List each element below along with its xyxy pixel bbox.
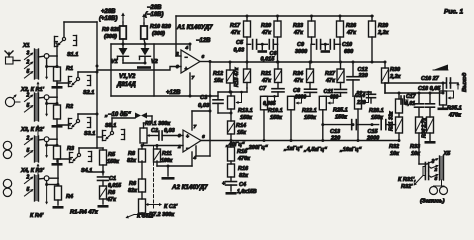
wire R33 to X5 [418, 133, 420, 164]
svg-text:Выход: Выход [462, 72, 468, 92]
wire bowtie to R7.1 [147, 115, 152, 117]
svg-text:47к: 47к [293, 78, 304, 84]
svg-text:4: 4 [193, 155, 197, 161]
capacitor C13 [323, 124, 351, 126]
wire from S5.1 up to bowtie [111, 118, 113, 131]
inverting input wire of A2 [142, 145, 183, 147]
capacitor C14 [370, 92, 372, 94]
ground under R3 [52, 163, 63, 166]
capacitor C1 [98, 176, 109, 178]
wiper of R7.1 to C2 [147, 135, 150, 137]
wire zener common [122, 60, 124, 63]
output wire of A1 [200, 61, 210, 63]
svg-text:„16кГц“: „16кГц“ [339, 147, 362, 153]
resistor R9 [122, 22, 124, 26]
svg-text:С10: С10 [342, 42, 352, 48]
svg-text:47к: 47к [325, 78, 336, 84]
wire to switch S2.1 [49, 96, 57, 98]
resistor R23 [311, 16, 313, 21]
wire to S5.2 with arrow [141, 213, 143, 215]
svg-text:S3.1: S3.1 [84, 131, 95, 137]
svg-text:R6: R6 [108, 190, 116, 196]
potentiometer R19.1 [261, 96, 268, 110]
top feedback bus [176, 15, 373, 17]
supply rail +12V [111, 95, 218, 97]
svg-text:С16 27: С16 27 [421, 76, 440, 82]
svg-text:150к: 150к [304, 115, 317, 121]
svg-text:R32′: R32′ [401, 184, 413, 190]
svg-text:680: 680 [344, 49, 353, 55]
pin 5 of X3 [25, 151, 33, 157]
svg-text:А2 К140УД7: А2 К140УД7 [171, 184, 208, 191]
svg-text:Х3, К R2′: Х3, К R2′ [20, 127, 45, 133]
svg-text:2,2к: 2,2к [389, 74, 402, 80]
svg-text:R25.1: R25.1 [333, 108, 348, 114]
wire to switch S3.1 [49, 138, 57, 140]
resistor R5 [100, 150, 107, 165]
resistor R6 [100, 186, 107, 199]
svg-text:47к: 47к [230, 30, 241, 36]
svg-text:S2.1: S2.1 [83, 90, 94, 96]
svg-text:0,03: 0,03 [164, 128, 175, 134]
svg-text:−28В: −28В [147, 5, 162, 11]
arrow output [457, 83, 459, 89]
wire column R26 R27 [339, 44, 341, 62]
svg-text:15к: 15к [237, 130, 247, 136]
ground between C5 C6 [261, 44, 263, 49]
svg-text:82к: 82к [127, 158, 137, 164]
svg-text:5: 5 [27, 69, 30, 75]
svg-text:R21: R21 [261, 71, 271, 77]
wire box left [110, 44, 112, 96]
wire node to pot R13.1 [246, 88, 248, 92]
svg-text:+: + [186, 134, 189, 140]
svg-text:S1.1: S1.1 [67, 52, 78, 58]
pin 4 stub of A2 [191, 152, 193, 166]
svg-text:К R4′: К R4′ [30, 213, 44, 219]
resistor R6b [139, 179, 146, 192]
switch S3.1 [68, 119, 70, 129]
svg-text:„−10 дБ“: „−10 дБ“ [104, 112, 131, 118]
svg-text:47к: 47к [293, 30, 304, 36]
op-amp A1 [181, 50, 200, 73]
svg-text:47к: 47к [346, 30, 357, 36]
svg-text:47к: 47к [261, 78, 272, 84]
svg-text:R5: R5 [108, 152, 116, 158]
capacitor C2 [150, 135, 159, 137]
svg-text:R29: R29 [378, 23, 389, 29]
attenuation bowtie symbol [135, 113, 141, 119]
resistor R20 [277, 16, 279, 21]
arrow to K R3p below [46, 145, 48, 156]
svg-text:0,005: 0,005 [263, 101, 276, 107]
svg-text:0,03: 0,03 [234, 48, 245, 54]
arrow -28V [143, 15, 145, 23]
terminal circle [44, 95, 49, 100]
svg-text:2,2к: 2,2к [377, 30, 390, 36]
svg-text:„1кГц“: „1кГц“ [283, 146, 303, 152]
wire C2 to A2 pin 3 [162, 135, 183, 137]
resistor R15 [230, 141, 232, 148]
svg-text:R11: R11 [162, 151, 172, 157]
svg-text:С1: С1 [109, 176, 116, 182]
pin 2 of X1 [25, 62, 33, 68]
switch S1.1 [54, 37, 56, 47]
selector bus wire [96, 22, 98, 148]
ground under R35.1 [438, 108, 449, 111]
wire circle junction [46, 142, 48, 146]
svg-text:82к: 82к [239, 173, 249, 179]
arrow to K R2p [37, 126, 39, 137]
wire S5.1 to R5 [97, 136, 103, 138]
wire circle junction [46, 100, 48, 104]
output bus of A2 [201, 140, 399, 142]
svg-text:−: − [185, 55, 188, 61]
svg-text:V1,V2: V1,V2 [119, 74, 136, 80]
svg-text:(Запись): (Запись) [420, 199, 445, 205]
capacitor C5 [247, 43, 251, 45]
pin 2 of X2 [25, 95, 33, 101]
resistor R18 [246, 62, 248, 69]
connector X2 [35, 93, 39, 121]
wire from S3.1 to selector bus [77, 114, 79, 119]
svg-text:R20: R20 [261, 23, 271, 29]
terminal circle [44, 176, 49, 181]
svg-text:150к: 150к [371, 115, 384, 121]
pickup symbol at X4 [3, 179, 11, 187]
svg-text:R30: R30 [390, 67, 400, 73]
ground under C4 [226, 192, 237, 195]
svg-text:R27: R27 [325, 71, 336, 77]
resistor R3 [54, 146, 61, 159]
svg-text:5: 5 [27, 103, 30, 109]
connector X4 [35, 175, 39, 201]
svg-text:С15: С15 [368, 129, 379, 135]
svg-text:R19.1: R19.1 [268, 108, 283, 114]
svg-text:7: 7 [194, 124, 197, 130]
svg-text:3: 3 [27, 51, 30, 57]
svg-text:+12В: +12В [166, 90, 181, 96]
wire node 16kHz [358, 91, 371, 93]
svg-text:10к: 10к [390, 151, 400, 157]
svg-text:R31 33к: R31 33к [389, 111, 395, 131]
wire common of X5 caps [423, 166, 425, 168]
capacitor C10 [325, 43, 328, 45]
svg-text:0,015: 0,015 [108, 183, 121, 189]
svg-text:6: 6 [202, 54, 205, 60]
svg-text:150к: 150к [335, 115, 348, 121]
svg-text:R3: R3 [67, 146, 74, 152]
ground between C9 C10 [324, 44, 326, 49]
capacitor at X5 pin 2 [424, 163, 426, 171]
wire column R17 R18 [246, 44, 248, 62]
resistor R1 [56, 66, 58, 69]
svg-text:47к: 47к [106, 197, 117, 203]
connector X3 [35, 136, 39, 162]
svg-text:Х4, К R3′: Х4, К R3′ [20, 168, 45, 174]
pin 7 supply rail of A2 [191, 111, 193, 130]
svg-text:К С2′: К С2′ [164, 204, 178, 210]
pin 2 of X3 [25, 138, 33, 144]
svg-text:150к: 150к [240, 115, 253, 121]
wire from X2 to R2 [39, 96, 45, 99]
potentiometer R13.1 [230, 92, 232, 96]
svg-text:С13: С13 [330, 129, 340, 135]
feedback wire to pin 2 [175, 16, 177, 56]
potentiometer R22.1 [288, 96, 295, 110]
svg-text:С9: С9 [297, 42, 305, 48]
svg-text:С18 0,05: С18 0,05 [418, 86, 441, 92]
pin 3 of X5 [427, 159, 438, 164]
svg-text:„200Гц“: „200Гц“ [245, 145, 268, 151]
pickup symbol at X3 [3, 141, 11, 149]
wire bend to pot R22.1 [291, 95, 310, 97]
switch S4.1 [69, 153, 71, 163]
svg-text:470к: 470к [237, 156, 251, 162]
resistor R34 [427, 117, 434, 133]
wire from S4.1 to selector bus [78, 148, 80, 153]
wire column R20 R21 [277, 44, 279, 62]
svg-text:R1-R4 47к: R1-R4 47к [70, 210, 99, 216]
wire bend to pot R19.1 [264, 95, 278, 97]
svg-text:S4.1: S4.1 [81, 168, 92, 174]
capacitor C9 [312, 43, 315, 45]
svg-text:R10 820: R10 820 [150, 24, 171, 30]
svg-text:+28В: +28В [101, 9, 116, 15]
wire from X1 to R1 [39, 55, 45, 58]
capacitor C3 [217, 92, 219, 100]
terminal circle K R1p [44, 54, 49, 59]
svg-text:R2: R2 [66, 104, 73, 110]
svg-text:R35.1: R35.1 [447, 106, 462, 112]
ground of zeners [137, 66, 151, 69]
ground under R2 [52, 125, 63, 128]
resistor R26 [339, 16, 341, 21]
capacitor C15 [380, 120, 382, 130]
resistor R32 [396, 117, 403, 133]
output flag arrow [433, 65, 448, 71]
svg-text:1,0х15В: 1,0х15В [237, 189, 257, 195]
svg-text:R23: R23 [293, 23, 303, 29]
op-amp A2 [183, 130, 201, 152]
svg-text:0,03: 0,03 [198, 103, 210, 109]
svg-text:7: 7 [192, 75, 195, 81]
svg-text:С7: С7 [259, 86, 267, 92]
svg-text:(300): (300) [104, 34, 117, 40]
pin 7 supply stub [189, 73, 191, 96]
wire from S2.1 to selector bus [77, 72, 79, 77]
switch S2.1 [68, 77, 70, 87]
wire from X3 to R3 [39, 138, 45, 141]
resistor R17 [246, 16, 248, 21]
resistor R30 [384, 62, 386, 68]
ground under R34 [425, 141, 436, 144]
wire to output jack [450, 82, 458, 84]
wire to switch S1.1 [49, 55, 57, 57]
svg-text:47к: 47к [261, 30, 272, 36]
wire column R23 R24 [310, 44, 312, 62]
svg-text:150к: 150к [270, 115, 283, 121]
svg-text:2: 2 [26, 93, 30, 99]
pin 5 of X5 [431, 175, 438, 178]
svg-text:R28.1: R28.1 [369, 108, 384, 114]
svg-text:220: 220 [358, 73, 368, 79]
wire from S1.1 to selector bus [63, 22, 65, 37]
svg-text:С5: С5 [236, 40, 244, 46]
ground of A2 input network [167, 166, 169, 176]
svg-text:R22.1: R22.1 [302, 108, 317, 114]
zener V2 [144, 44, 146, 48]
svg-text:К S5.2: К S5.2 [137, 214, 153, 220]
svg-text:3000: 3000 [295, 49, 307, 55]
svg-text:100к: 100к [161, 158, 173, 164]
arrow to K R4p [46, 185, 48, 204]
pin 2 input wire of A1 [176, 55, 181, 57]
svg-text:(−18В): (−18В) [145, 12, 164, 18]
svg-text:А1 К140УД7: А1 К140УД7 [176, 24, 213, 31]
resistor R29 [371, 16, 373, 21]
terminal circle [44, 137, 49, 142]
potentiometer R28.1 [357, 92, 359, 96]
svg-text:R9 820: R9 820 [102, 27, 120, 33]
svg-text:5: 5 [27, 187, 30, 193]
svg-text:R26: R26 [346, 23, 357, 29]
wire [334, 43, 340, 45]
svg-text:R8: R8 [128, 151, 136, 157]
capacitor C19 [418, 93, 420, 104]
svg-text:R6: R6 [129, 181, 137, 187]
svg-text:6: 6 [202, 134, 205, 140]
svg-text:2: 2 [434, 167, 438, 173]
wire R30 to output [385, 82, 446, 84]
wire S4 row to C1 [88, 171, 103, 173]
svg-text:С8: С8 [293, 88, 301, 94]
resistor R27 [340, 62, 342, 69]
pin 5 of X4 [25, 190, 33, 196]
capacitor C6 [262, 43, 267, 45]
pin 5 of X2 [25, 106, 33, 112]
microphone symbol at X2 [5, 97, 14, 106]
svg-text:R32: R32 [389, 144, 399, 150]
resistor R21 [277, 62, 279, 69]
svg-text:R34 2,7к: R34 2,7к [422, 117, 428, 138]
svg-text:4: 4 [185, 45, 189, 51]
resistor R4 [55, 186, 62, 200]
pin 5 of X1 [25, 72, 33, 78]
svg-text:−12В: −12В [196, 38, 211, 44]
svg-text:−: − [186, 146, 189, 152]
wire A2 feedback [209, 111, 211, 156]
svg-text:(+18В): (+18В) [99, 16, 118, 22]
signal bus from A1 output [210, 61, 385, 63]
svg-text:R7.1 300к: R7.1 300к [145, 121, 171, 127]
arrow to K R2p below [46, 104, 48, 116]
pin 2 of X4 [25, 177, 33, 183]
svg-text:2: 2 [26, 60, 30, 66]
resistor R8 [141, 146, 143, 150]
capacitor C12 [352, 62, 354, 76]
svg-text:(300): (300) [152, 31, 165, 37]
wire to switch S4.1 [49, 177, 58, 179]
svg-text:470к: 470к [448, 113, 462, 119]
wiper of R7.2 arrow to C2p [146, 204, 161, 206]
svg-text:680: 680 [330, 95, 339, 101]
svg-text:R1: R1 [66, 66, 73, 72]
capacitor C11 [335, 88, 347, 90]
svg-text:3: 3 [432, 159, 435, 165]
connector X5 [440, 156, 444, 180]
svg-text:R4: R4 [66, 194, 73, 200]
pin 2 of X5 [431, 166, 438, 169]
wire box right [153, 44, 155, 96]
potentiometer R7.1 [143, 123, 145, 128]
ground under R6 [98, 205, 109, 208]
svg-text:R18 47к: R18 47к [234, 67, 240, 87]
wire circle junction [46, 181, 48, 185]
wire bend to pot R25.1 [323, 95, 341, 97]
arrow to K R3p [37, 165, 39, 176]
svg-text:0,01: 0,01 [405, 101, 415, 107]
ground under R4 [53, 206, 64, 209]
svg-text:С3: С3 [200, 95, 208, 101]
capacitor C8 [305, 88, 317, 90]
zener V1 [122, 44, 124, 48]
svg-text:2: 2 [26, 136, 30, 142]
wire A1 output down [209, 62, 211, 112]
svg-text:150к: 150к [107, 159, 120, 165]
svg-text:С2: С2 [151, 128, 158, 134]
capacitor at X5 pin 5 [424, 172, 426, 180]
svg-text:Рис. 1: Рис. 1 [444, 9, 464, 16]
capacitor C20 [429, 93, 431, 104]
supply rail -12V [111, 43, 190, 45]
svg-text:R24: R24 [293, 71, 303, 77]
record head symbol [441, 180, 443, 186]
capacitor C16 [446, 78, 448, 88]
wire lower output net [384, 83, 386, 93]
svg-text:R15: R15 [237, 149, 248, 155]
svg-text:R16: R16 [238, 166, 249, 172]
svg-text:„4,5кГц“: „4,5кГц“ [303, 147, 327, 153]
arrow +28V [122, 14, 124, 22]
antenna symbol at X1 [8, 53, 10, 58]
svg-text:R12: R12 [213, 71, 223, 77]
arrow to K R1p below [46, 67, 48, 79]
wire [273, 43, 277, 45]
svg-text:5: 5 [27, 148, 30, 154]
pin 3 of X1 [25, 53, 33, 59]
pin 4 supply stub [189, 44, 191, 50]
resistor R10 [143, 23, 145, 26]
arrow to R31 R32 [415, 176, 424, 185]
svg-text:V2: V2 [151, 59, 158, 65]
svg-text:82к: 82к [128, 188, 138, 194]
arrow to K R1p [37, 83, 39, 94]
svg-text:S5.1: S5.1 [105, 123, 116, 129]
capacitor C17 [400, 96, 402, 104]
resistor R35.1 [440, 91, 447, 105]
potentiometer R7.2 [139, 199, 146, 213]
resistor R12 [229, 62, 231, 70]
svg-text:К R31′,: К R31′, [398, 177, 416, 183]
svg-text:С4: С4 [239, 182, 246, 188]
mechanical link dashed [153, 146, 155, 208]
resistor R14 [228, 121, 235, 134]
wire from X4 to R4 [39, 177, 45, 180]
svg-text:5: 5 [435, 176, 438, 182]
resistor R33 [416, 117, 423, 133]
connector X1 [35, 49, 39, 79]
